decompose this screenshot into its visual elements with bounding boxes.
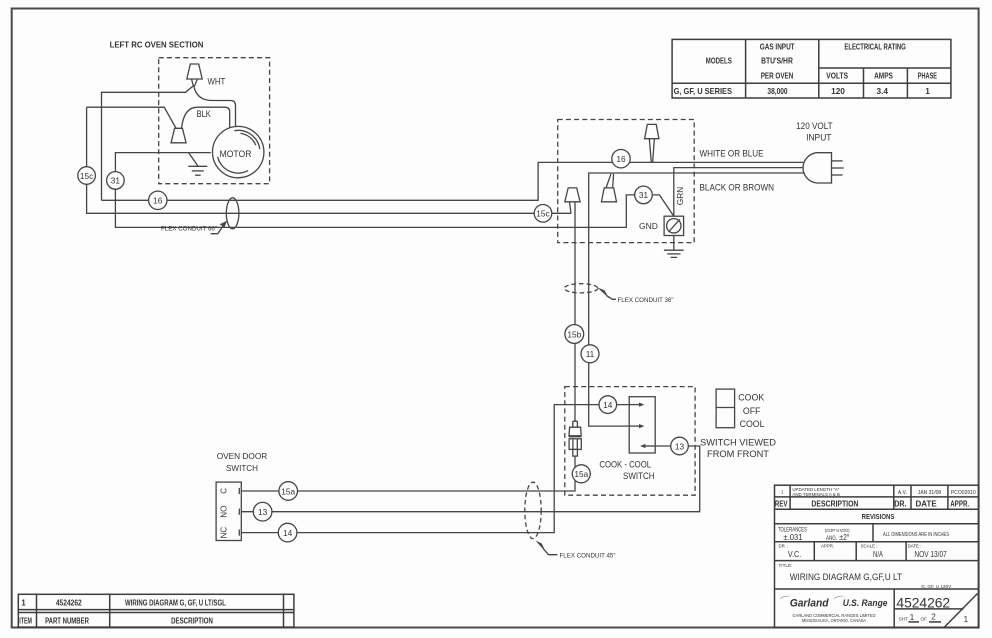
svg-text:15c: 15c (536, 209, 549, 219)
svg-text:1: 1 (964, 615, 969, 624)
svg-text:15a: 15a (574, 469, 588, 479)
svg-text:DESCRIPTION: DESCRIPTION (171, 616, 213, 625)
title block row: dr/appr/scale/date (779, 544, 948, 560)
svg-text:11: 11 (586, 349, 595, 359)
svg-text:31: 31 (111, 176, 121, 186)
wire: node 13 run (switch to NO) (241, 446, 699, 512)
svg-text:GAS INPUT: GAS INPUT (760, 41, 795, 51)
label: COOK OFF COOL (738, 393, 764, 429)
svg-text:COOK: COOK (738, 393, 764, 403)
svg-text:SCALE :: SCALE : (861, 544, 878, 549)
svg-text:WHITE OR BLUE: WHITE OR BLUE (700, 149, 764, 159)
node 13 (cook-cool) (671, 437, 689, 455)
wire: GRN ground wire to plug (674, 168, 806, 217)
junction box enclosure (dashed, middle) (558, 120, 695, 243)
svg-text:PER OVEN: PER OVEN (761, 71, 794, 81)
left RC oven section enclosure (dashed) (159, 58, 270, 184)
label: FLEX CONDUIT 45" with leader arrow (536, 541, 616, 560)
svg-text:REV: REV (775, 499, 788, 509)
svg-text:SWITCH: SWITCH (623, 471, 655, 482)
svg-text:BTU'S/HR: BTU'S/HR (761, 56, 793, 66)
svg-text:±.031: ±.031 (783, 532, 802, 542)
svg-text:DESCRIPTION: DESCRIPTION (811, 499, 858, 509)
svg-text:±2°: ±2° (839, 532, 849, 542)
wire: node 16 long horizontal run (102, 162, 807, 200)
title block: sheet info (899, 594, 978, 628)
ground lug GND (terminal block) (664, 216, 684, 235)
svg-text:OFF: OFF (743, 406, 761, 416)
node 31 (left) (107, 172, 125, 190)
svg-text:FROM FRONT: FROM FRONT (707, 449, 769, 459)
svg-text:APPR.: APPR. (950, 499, 969, 509)
label: OVEN DOOR SWITCH (217, 451, 268, 473)
svg-text:1: 1 (910, 613, 915, 622)
svg-text:BLK: BLK (197, 109, 212, 119)
svg-text:120: 120 (831, 86, 845, 96)
ground: earth ground below GND lug (664, 236, 684, 258)
svg-text:PCO02610: PCO02610 (951, 490, 976, 496)
svg-text:SWITCH VIEWED: SWITCH VIEWED (700, 437, 776, 447)
svg-text:REVISIONS: REVISIONS (862, 512, 895, 521)
svg-text:15c: 15c (80, 171, 93, 181)
svg-text:SHT: SHT (899, 616, 908, 621)
svg-text:ALL DIMENSIONS ARE IN INCHES: ALL DIMENSIONS ARE IN INCHES (883, 532, 949, 538)
label: FLEX CONDUIT 66" with leader arrow (161, 221, 227, 234)
svg-text:NO: NO (220, 506, 229, 518)
svg-text:G, GF, U 120V: G, GF, U 120V (921, 584, 952, 589)
svg-text:WHT: WHT (208, 77, 226, 87)
svg-text:DR. :: DR. : (779, 544, 789, 549)
node 31 (middle box) (635, 186, 653, 204)
svg-text:VOLTS: VOLTS (826, 71, 848, 81)
svg-text:A.V.: A.V. (898, 490, 907, 496)
svg-text:NC: NC (220, 527, 229, 539)
node 16 (middle box) (612, 150, 630, 168)
svg-text:3.4: 3.4 (877, 86, 889, 96)
node 15b (565, 325, 584, 344)
svg-text:COOK - COOL: COOK - COOL (599, 460, 651, 471)
svg-text:1: 1 (925, 86, 930, 96)
svg-text:ELECTRICAL RATING: ELECTRICAL RATING (844, 41, 905, 51)
node 11 (581, 345, 599, 363)
svg-text:C: C (220, 488, 229, 494)
motor M1 (213, 126, 264, 177)
node 15c (left) (78, 167, 96, 185)
svg-text:OVEN DOOR: OVEN DOOR (217, 451, 268, 461)
svg-text:U.S. Range: U.S. Range (843, 598, 888, 609)
ground: motor chassis ground (188, 153, 207, 176)
svg-text:GND: GND (639, 221, 658, 231)
svg-text:SWITCH: SWITCH (226, 463, 258, 473)
svg-text:MODELS: MODELS (706, 56, 732, 66)
node 14 (cook-cool) (599, 396, 617, 414)
svg-text:13: 13 (675, 441, 685, 451)
cook-cool switch enclosure (dashed) (565, 387, 695, 496)
svg-text:FLEX CONDUIT 36": FLEX CONDUIT 36" (618, 297, 674, 304)
node 13 (door switch) (253, 502, 272, 521)
svg-text:INPUT: INPUT (806, 133, 832, 143)
svg-text:4524262: 4524262 (56, 599, 82, 608)
svg-text:N/A: N/A (873, 549, 883, 559)
svg-text:LEFT RC OVEN SECTION: LEFT RC OVEN SECTION (110, 39, 204, 49)
svg-text:PART NUMBER: PART NUMBER (45, 616, 89, 625)
table: title block (bottom right) (775, 485, 979, 627)
svg-text:120 VOLT: 120 VOLT (796, 121, 833, 131)
title block row: revision 1 entry (781, 487, 976, 497)
plug P1: 120 volt input (803, 153, 844, 183)
svg-text:2: 2 (931, 613, 936, 622)
wire nut: 15c junction (middle box) with stem to 15b (565, 188, 580, 421)
label: SWITCH VIEWED FROM FRONT (700, 437, 776, 459)
svg-text:AMPS: AMPS (874, 71, 893, 81)
logo: Garland / U.S. Range (780, 596, 889, 623)
flex conduit 45" ellipse (dashed) (525, 482, 541, 538)
connector J1: inline disconnect on 15a/15b (569, 421, 582, 456)
svg-text:V.C.: V.C. (788, 549, 801, 559)
label: FLEX CONDUIT 36" with leader arrow (598, 288, 674, 305)
node 15a (cook-cool) (572, 465, 590, 483)
wire: node 14 run (NC to switch) (241, 405, 629, 533)
svg-text:GRN: GRN (675, 187, 685, 205)
svg-text:MISSISSAUGA, ONTARIO, CANADA: MISSISSAUGA, ONTARIO, CANADA (802, 618, 866, 623)
wire nut: BLK (171, 128, 186, 143)
table: ratings (top right) (672, 39, 951, 98)
svg-text:AND TERMINALS A & B: AND TERMINALS A & B (792, 492, 840, 497)
svg-text:PHASE: PHASE (918, 71, 938, 81)
flex conduit 66" ellipse (226, 198, 239, 229)
wire nut: black junction (middle box) with stem (601, 174, 616, 202)
svg-text:14: 14 (603, 400, 613, 410)
title block: drawing number 4524262 (894, 596, 963, 611)
svg-text:FLEX CONDUIT 66": FLEX CONDUIT 66" (161, 226, 217, 233)
switch S1: cook-cool switch body (629, 397, 655, 453)
svg-text:BLACK OR BROWN: BLACK OR BROWN (700, 183, 775, 193)
flex conduit 36" ellipse (dashed) (564, 284, 598, 293)
wire: motor ground wire / node 31 run (115, 153, 635, 228)
svg-text:WIRING DIAGRAM G,GF,U LT: WIRING DIAGRAM G,GF,U LT (790, 572, 903, 582)
svg-text:Garland: Garland (790, 598, 830, 610)
svg-text:APPR.: APPR. (821, 544, 834, 549)
title block row: headers (775, 499, 969, 509)
svg-text:NOV 13/07: NOV 13/07 (914, 549, 947, 559)
wire: BLK nut to motor (curved) (182, 107, 230, 130)
wire nut: WHT (187, 64, 202, 86)
wire: WHT nut to motor (curved) (194, 86, 236, 128)
svg-text:FLEX CONDUIT 45": FLEX CONDUIT 45" (560, 552, 616, 559)
title block row: title (779, 563, 953, 589)
svg-text:15b: 15b (567, 329, 581, 339)
wire: node 15c vertical + long horizontal run (87, 107, 571, 213)
svg-text:DR.: DR. (894, 499, 906, 509)
wire: WHT nut to left vertical (node 16 net) (102, 86, 194, 201)
svg-text:DATE: DATE (916, 499, 938, 509)
svg-text:ANG.: ANG. (826, 536, 837, 542)
wire: node 15c horizontal to BLK nut (87, 107, 176, 128)
svg-text:OF: OF (921, 616, 928, 621)
wire nut: white junction (top, middle box) (645, 124, 659, 162)
switch S2: oven door switch body (216, 482, 241, 540)
wire: node 31 to ground lug (652, 195, 674, 216)
svg-text:16: 16 (616, 154, 626, 164)
svg-text:G, GF, U SERIES: G, GF, U SERIES (674, 86, 733, 96)
node 15a (door switch) (279, 482, 298, 501)
wire: node 15a run (C to connector) (241, 456, 575, 491)
svg-text:WIRING DIAGRAM G, GF, U LT/SGL: WIRING DIAGRAM G, GF, U LT/SGL (125, 599, 226, 608)
svg-text:1: 1 (21, 599, 26, 608)
wire: black/brown wire to plug (node 11 net) (589, 173, 806, 426)
svg-text:TITLE:: TITLE: (779, 563, 793, 568)
svg-text:COOL: COOL (740, 419, 765, 429)
svg-text:38,000: 38,000 (767, 86, 787, 96)
svg-text:ITEM: ITEM (19, 616, 32, 625)
svg-text:16: 16 (153, 196, 163, 206)
svg-text:14: 14 (283, 528, 293, 538)
svg-text:DATE :: DATE : (908, 544, 922, 549)
switch front view graphic (716, 389, 735, 428)
title block row: tolerances (778, 528, 949, 543)
svg-text:MOTOR: MOTOR (220, 149, 252, 160)
node 15c (middle box) (534, 205, 552, 223)
node 16 (left) (149, 191, 167, 209)
svg-text:31: 31 (639, 190, 649, 200)
svg-text:13: 13 (258, 507, 268, 517)
table: parts list (bottom left) (18, 594, 294, 627)
node 14 (door switch) (278, 523, 297, 542)
svg-text:JAN 31/08: JAN 31/08 (918, 490, 942, 496)
svg-text:15a: 15a (281, 486, 295, 496)
